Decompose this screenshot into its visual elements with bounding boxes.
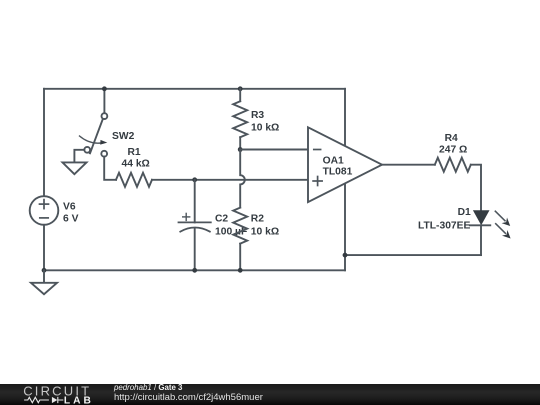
wire R1 to op-amp non-inverting input (through C2 junction) [152, 179, 308, 181]
junction dot V6 / bottom rail [42, 268, 47, 273]
svg-text:LTL-307EE: LTL-307EE [418, 221, 471, 232]
junction dot R2 / bottom rail [238, 268, 243, 273]
svg-text:R3: R3 [251, 110, 264, 121]
svg-text:10 kΩ: 10 kΩ [251, 226, 279, 237]
junction dot top rail / SW2 stem [102, 86, 107, 91]
wire C2 bottom lead to bottom rail [194, 228, 196, 270]
wire left rail (top wire to V6 plus terminal) [43, 89, 45, 196]
svg-text:V6: V6 [63, 201, 76, 212]
wire LED return to right rail [345, 254, 481, 256]
LED D1 [470, 210, 511, 238]
label R2 / 10 kΩ [251, 214, 279, 238]
resistor R4 [435, 158, 471, 172]
resistor R1 [116, 173, 152, 187]
wire SW2 stem from top rail [103, 89, 105, 113]
svg-text:R1: R1 [128, 147, 141, 158]
footer bar [0, 384, 540, 405]
wire inverting node to op-amp - input [240, 149, 308, 151]
label R4 / 247 Ω [439, 133, 467, 156]
ground (under V6) [31, 270, 57, 294]
wire R3 top lead [239, 89, 241, 101]
label D1 / LTL-307EE [418, 207, 471, 232]
svg-text:44 kΩ: 44 kΩ [122, 159, 150, 170]
svg-text:D1: D1 [458, 207, 471, 218]
svg-text:100 µF: 100 µF [215, 226, 247, 237]
resistor R3 [233, 101, 247, 137]
junction dot top rail / R3 stem [238, 86, 243, 91]
switch SW2 [80, 113, 108, 156]
ground (under SW2) [63, 162, 87, 174]
svg-text:247 Ω: 247 Ω [439, 144, 467, 155]
label OA1 / TL081 [323, 155, 353, 177]
svg-text:TL081: TL081 [323, 167, 353, 178]
op-amp OA1 [308, 127, 382, 202]
svg-text:10 kΩ: 10 kΩ [251, 123, 279, 134]
wire bottom rail [44, 269, 345, 271]
junction dot C2 top node [192, 177, 197, 182]
label R1 / 44 kΩ [122, 147, 150, 170]
label C2 / 100 µF [215, 214, 247, 238]
wire C2 top lead [194, 180, 196, 223]
wire top rail [44, 88, 345, 90]
capacitor C2 (polarized) [179, 213, 211, 231]
label R3 / 10 kΩ [251, 110, 279, 133]
wire D1 cathode down [480, 225, 482, 255]
wire R3 bottom to inverting node [239, 137, 241, 149]
wire R4 to D1 anode [471, 165, 481, 211]
CircuitLab logo [0, 384, 110, 405]
wire op-amp output to R4 [382, 164, 435, 166]
junction dot inverting node [238, 147, 243, 152]
svg-text:6 V: 6 V [63, 214, 79, 225]
plot title: pedrohab1 / Gate 3 [114, 383, 182, 392]
label V6 / 6 V [63, 201, 79, 224]
junction dot LED return / right rail [343, 253, 348, 258]
wire SW2 right throw down to R1 [104, 157, 116, 180]
wire right rail (top rail down to bottom rail, passes behind op-amp) [344, 89, 346, 270]
svg-text:LAB: LAB [64, 395, 94, 405]
wire V6 bottom terminal to bottom rail [43, 225, 45, 270]
wire SW2 left throw to ground [74, 150, 84, 163]
junction dot C2 / bottom rail [192, 268, 197, 273]
svg-text:OA1: OA1 [323, 155, 344, 166]
wire R2 bottom to bottom rail [239, 244, 241, 271]
svg-text:SW2: SW2 [112, 131, 135, 142]
resistor R2 [233, 208, 247, 244]
svg-text:R4: R4 [445, 133, 458, 144]
plot URL [114, 392, 263, 403]
svg-text:C2: C2 [215, 214, 228, 225]
svg-text:R2: R2 [251, 214, 264, 225]
wire inverting node down to R2 with hop over + wire [240, 150, 245, 208]
voltage source V6 [30, 196, 59, 225]
